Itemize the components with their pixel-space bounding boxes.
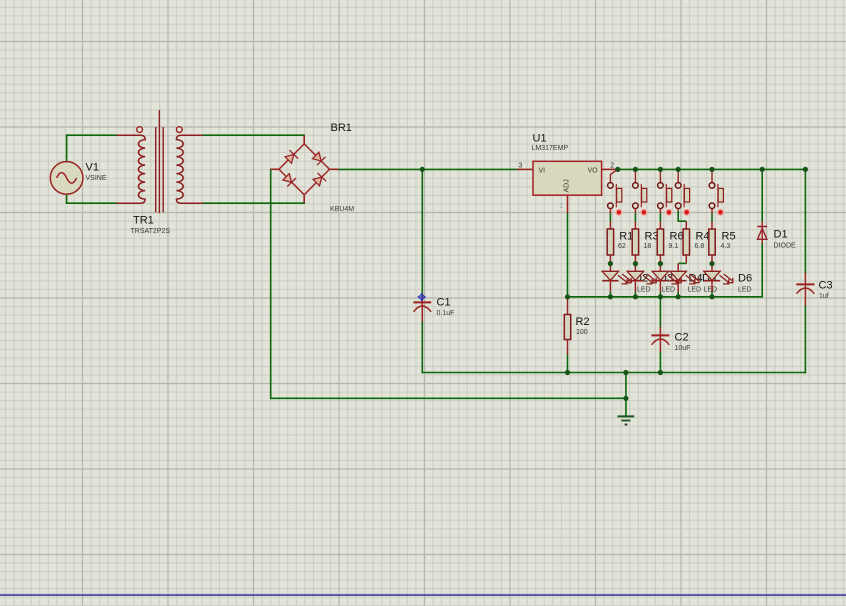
resistor R5 bbox=[709, 229, 715, 271]
svg-text:C3: C3 bbox=[819, 280, 833, 292]
label TR1 bbox=[131, 215, 171, 235]
svg-text:6.8: 6.8 bbox=[695, 243, 705, 250]
node VO col4 bbox=[676, 167, 681, 172]
node ADJ D4 C2 bbox=[658, 294, 663, 299]
bridge rectifier BR1 diamond bbox=[279, 144, 330, 195]
svg-text:V1: V1 bbox=[86, 162, 99, 174]
wire secondary top to bridge bbox=[203, 134, 304, 136]
svg-text:R6: R6 bbox=[670, 230, 684, 242]
node VO col2 bbox=[633, 167, 638, 172]
wire D1 bottom bbox=[761, 244, 763, 297]
svg-text:C1: C1 bbox=[437, 297, 451, 309]
wire C3 bottom bbox=[804, 306, 806, 373]
switch SW4 column 4 bbox=[675, 169, 689, 210]
svg-text:TRSAT2P2S: TRSAT2P2S bbox=[131, 228, 171, 235]
regulator U1 body bbox=[533, 161, 602, 195]
node ADJ D3 bbox=[633, 294, 638, 299]
switch SW4 red dot bbox=[684, 209, 690, 215]
wire D1 top bbox=[761, 169, 763, 221]
node ADJ D5 bbox=[676, 294, 681, 299]
svg-text:C2: C2 bbox=[675, 332, 689, 344]
capacitor C3 bbox=[796, 273, 814, 306]
svg-text:D1: D1 bbox=[774, 229, 788, 241]
U1 ADJ pin bbox=[567, 195, 569, 213]
node VO col5 bbox=[709, 167, 714, 172]
wire 0V bottom rail bbox=[271, 397, 626, 399]
LED D4 bbox=[652, 271, 681, 297]
svg-text:18: 18 bbox=[644, 243, 652, 250]
node R3 LED bbox=[633, 261, 638, 266]
LED D3 bbox=[627, 271, 656, 297]
svg-text:0.1uF: 0.1uF bbox=[437, 310, 455, 317]
svg-text:3: 3 bbox=[519, 163, 523, 170]
svg-text:R5: R5 bbox=[722, 230, 736, 242]
label U1 bbox=[532, 133, 569, 153]
svg-text:BR1: BR1 bbox=[331, 122, 352, 134]
wire C2 bottom bbox=[659, 352, 661, 373]
BR1 diode lower-right bbox=[313, 173, 326, 186]
svg-text:ADJ: ADJ bbox=[564, 179, 571, 192]
node ADJ R2 bbox=[565, 294, 570, 299]
label R1 bbox=[618, 230, 633, 250]
resistor R4 bbox=[683, 229, 689, 263]
svg-text:1uf: 1uf bbox=[819, 293, 829, 300]
node VO col1 bbox=[615, 167, 620, 172]
transformer TR1 primary winding bbox=[117, 135, 146, 203]
svg-text:R2: R2 bbox=[576, 316, 590, 328]
svg-text:D6: D6 bbox=[738, 272, 752, 284]
BR1 diode upper-left bbox=[285, 150, 298, 163]
node VO D1 bbox=[760, 167, 765, 172]
wire C1 top bbox=[421, 169, 423, 293]
svg-text:LED: LED bbox=[688, 287, 702, 294]
wire middle ground rail bbox=[422, 372, 805, 374]
svg-text:4.3: 4.3 bbox=[721, 243, 731, 250]
wire bridge output to U1 VI bbox=[338, 168, 517, 170]
svg-text:DIODE: DIODE bbox=[774, 243, 797, 250]
node C1 tap bbox=[420, 167, 425, 172]
node R6 LED bbox=[658, 261, 663, 266]
wire VO rail corner down to C3 bbox=[804, 169, 806, 272]
node VO C3 corner bbox=[803, 167, 808, 172]
BR1 top pin bbox=[303, 135, 305, 144]
svg-text:TR1: TR1 bbox=[133, 215, 154, 227]
wire bridge left to 0V rail bbox=[270, 169, 272, 398]
svg-text:62: 62 bbox=[618, 243, 626, 250]
BR1 diode upper-right bbox=[313, 152, 326, 165]
U1 pin 3 bbox=[517, 168, 533, 170]
ground symbol bbox=[618, 416, 635, 424]
wire ADJ rail bbox=[568, 296, 763, 298]
wire V1 bottom horizontal bbox=[67, 202, 117, 204]
svg-text:LED: LED bbox=[738, 287, 752, 294]
svg-text:VI: VI bbox=[539, 167, 546, 174]
label D5 bbox=[702, 272, 717, 293]
LED D2 bbox=[602, 271, 631, 297]
node ground rail bbox=[623, 396, 628, 401]
C1 blue origin marker bbox=[418, 293, 426, 301]
capacitor C1 bbox=[413, 294, 431, 322]
node R1 LED bbox=[608, 261, 613, 266]
svg-text:U1: U1 bbox=[533, 133, 547, 145]
svg-text:2: 2 bbox=[610, 163, 614, 170]
transformer TR1 secondary winding bbox=[176, 135, 203, 203]
node rail C2 bbox=[658, 370, 663, 375]
diode D1 bbox=[757, 222, 767, 244]
svg-text:LED: LED bbox=[662, 287, 676, 294]
U1 pin 2 bbox=[602, 168, 616, 170]
resistor R6 bbox=[657, 229, 663, 271]
switch SW2 red dot bbox=[641, 209, 647, 215]
label D6 bbox=[738, 272, 752, 293]
label D4 bbox=[688, 272, 703, 293]
svg-text:9.1: 9.1 bbox=[669, 243, 679, 250]
resistor R1 bbox=[607, 229, 613, 271]
wire V1 bottom vertical bbox=[66, 194, 68, 203]
junction node dots bbox=[420, 167, 808, 401]
label R2 bbox=[576, 316, 590, 336]
svg-text:100: 100 bbox=[576, 329, 588, 336]
switch SW1 column 1 bbox=[608, 169, 622, 229]
wire secondary bottom to bridge bbox=[203, 202, 304, 204]
node ADJ D6 bbox=[709, 294, 714, 299]
wire R4 top pin bbox=[685, 221, 687, 229]
node VO col3 bbox=[658, 167, 663, 172]
label R3 bbox=[644, 230, 659, 250]
node rail R2 bbox=[565, 370, 570, 375]
switch SW1 red dot bbox=[616, 209, 622, 215]
svg-text:10uF: 10uF bbox=[675, 345, 691, 352]
resistor R3 bbox=[632, 229, 638, 271]
transformer TR1 core bbox=[156, 110, 164, 213]
BR1 left pin bbox=[271, 168, 279, 170]
label D1 bbox=[774, 229, 797, 250]
node R5 LED bbox=[709, 261, 714, 266]
label R5 bbox=[721, 230, 736, 250]
transformer TR1 phase dots bbox=[137, 127, 183, 133]
sine source V1 bbox=[50, 162, 83, 195]
BR1 right pin bbox=[330, 168, 338, 170]
wire VO output rail bbox=[616, 168, 806, 170]
wire C1 bottom bbox=[421, 322, 423, 373]
node ADJ D2 bbox=[608, 294, 613, 299]
svg-text:LM317EMP: LM317EMP bbox=[532, 145, 569, 152]
sheet border blue line bbox=[0, 594, 846, 596]
wire V1 top vertical bbox=[66, 135, 68, 162]
svg-text:KBU4M: KBU4M bbox=[330, 206, 354, 213]
svg-text:R4: R4 bbox=[696, 230, 710, 242]
label C1 bbox=[437, 297, 455, 318]
wire switch SW4 jog to R4 bbox=[678, 211, 686, 221]
wire D5 anode bbox=[677, 263, 679, 271]
label R6 bbox=[669, 230, 684, 250]
switch SW5 column 5 bbox=[709, 169, 723, 229]
wire R2 bottom bbox=[567, 355, 569, 373]
label C2 bbox=[675, 332, 691, 352]
capacitor C2 bbox=[651, 327, 669, 352]
switch SW2 column 2 bbox=[633, 169, 647, 229]
label C3 bbox=[819, 280, 833, 301]
resistor R2 bbox=[564, 297, 570, 355]
node rail ground bbox=[623, 370, 628, 375]
wire R4 jog to LED D5 bbox=[678, 262, 686, 264]
svg-text:R1: R1 bbox=[619, 230, 633, 242]
wire V1 top horizontal bbox=[67, 134, 117, 136]
BR1 bottom pin bbox=[303, 195, 305, 203]
svg-text:VSINE: VSINE bbox=[86, 175, 107, 182]
wire C2 top bbox=[659, 297, 661, 327]
svg-text:LED: LED bbox=[704, 287, 718, 294]
wire U1 ADJ down bbox=[567, 213, 569, 296]
BR1 diode lower-left bbox=[283, 174, 296, 187]
wire ground stem bbox=[625, 373, 627, 417]
switch SW5 red dot bbox=[718, 209, 724, 215]
label D3 bbox=[659, 272, 675, 293]
svg-text:VO: VO bbox=[588, 167, 599, 174]
label R4 bbox=[695, 230, 710, 250]
svg-text:LED: LED bbox=[637, 287, 651, 294]
label D2 bbox=[634, 272, 651, 293]
label BR1 bbox=[330, 122, 354, 213]
switch SW3 red dot bbox=[666, 209, 672, 215]
LED D6 bbox=[704, 271, 733, 297]
label V1 bbox=[86, 162, 107, 182]
LED D5 bbox=[670, 271, 699, 297]
switch SW3 column 3 bbox=[658, 169, 672, 229]
